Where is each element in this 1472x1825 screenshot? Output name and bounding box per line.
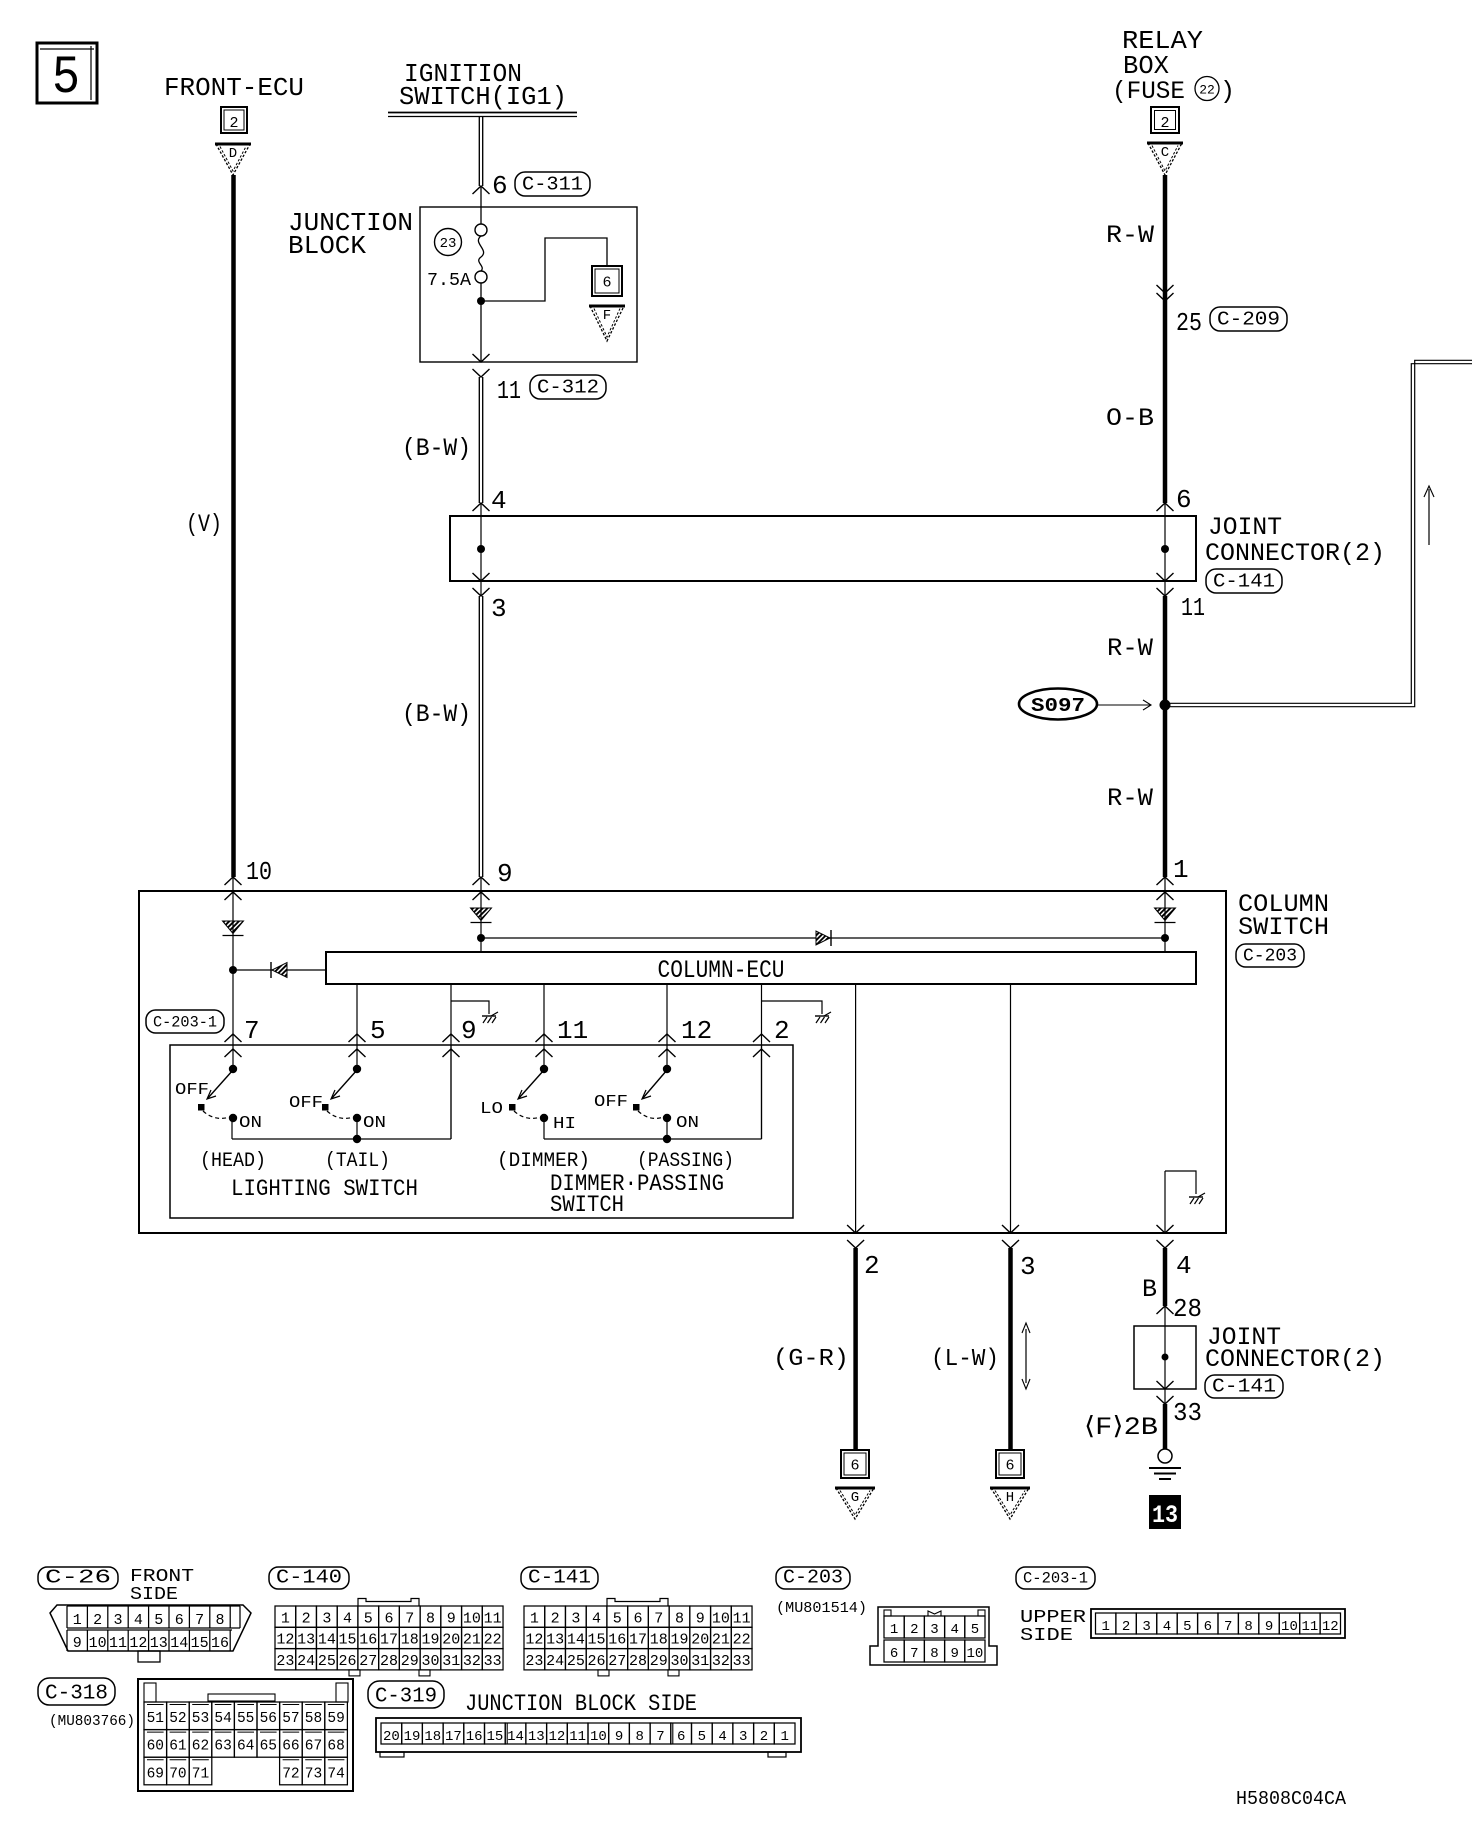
svg-text:21: 21 [463,1632,481,1649]
svg-text:72: 72 [282,1766,299,1782]
svg-text:2: 2 [229,115,238,132]
svg-text:8: 8 [426,1610,435,1627]
svg-text:5: 5 [364,1610,373,1627]
svg-text:C-319: C-319 [375,1686,437,1709]
svg-text:9: 9 [447,1610,456,1627]
svg-text:2: 2 [910,1622,918,1638]
svg-text:20: 20 [383,1729,400,1745]
svg-text:C-318: C-318 [45,1683,108,1706]
svg-text:SWITCH(IG1): SWITCH(IG1) [399,82,567,112]
svg-text:(FUSE: (FUSE [1112,77,1185,106]
svg-text:C-26: C-26 [45,1567,111,1589]
svg-text:11: 11 [484,1610,502,1627]
svg-text:8: 8 [930,1646,938,1662]
svg-text:18: 18 [401,1632,419,1649]
svg-text:3: 3 [1142,1619,1150,1635]
svg-text:CONNECTOR(2): CONNECTOR(2) [1205,1345,1385,1374]
svg-text:6: 6 [385,1610,394,1627]
svg-text:): ) [1220,77,1235,106]
svg-text:(DIMMER): (DIMMER) [497,1150,590,1173]
svg-text:54: 54 [214,1711,231,1727]
svg-text:(V): (V) [186,510,222,539]
svg-text:7.5A: 7.5A [427,271,471,291]
svg-text:S097: S097 [1031,695,1085,717]
svg-text:4: 4 [950,1622,958,1638]
svg-text:23: 23 [276,1653,294,1670]
svg-text:1: 1 [1173,855,1189,885]
svg-text:53: 53 [192,1711,209,1727]
svg-text:4: 4 [1163,1619,1171,1635]
svg-text:16: 16 [211,1635,229,1652]
svg-text:26: 26 [339,1653,357,1670]
svg-text:10: 10 [590,1729,607,1745]
svg-text:C-141: C-141 [1213,571,1275,593]
svg-text:FRONT: FRONT [130,1567,194,1587]
svg-text:14: 14 [567,1632,585,1649]
svg-text:JUNCTION BLOCK SIDE: JUNCTION BLOCK SIDE [465,1691,697,1717]
svg-text:6: 6 [890,1646,898,1662]
svg-text:20: 20 [442,1632,460,1649]
svg-text:2: 2 [302,1610,311,1627]
svg-text:11: 11 [557,1016,588,1046]
svg-text:24: 24 [546,1653,564,1670]
svg-text:C-209: C-209 [1217,309,1280,331]
svg-text:LIGHTING SWITCH: LIGHTING SWITCH [231,1176,418,1202]
svg-text:LO: LO [480,1100,503,1119]
svg-text:17: 17 [380,1632,398,1649]
svg-text:9: 9 [615,1729,623,1745]
svg-text:23: 23 [525,1653,543,1670]
svg-text:25: 25 [1176,308,1202,338]
svg-text:5: 5 [1183,1619,1191,1635]
svg-text:(G-R): (G-R) [773,1346,849,1373]
svg-text:74: 74 [327,1766,344,1782]
svg-text:(L-W): (L-W) [931,1346,999,1373]
svg-text:16: 16 [608,1632,626,1649]
svg-text:C-140: C-140 [276,1567,342,1589]
svg-text:56: 56 [260,1711,277,1727]
svg-text:19: 19 [404,1729,421,1745]
svg-text:12: 12 [276,1632,294,1649]
svg-text:7: 7 [1224,1619,1232,1635]
svg-text:G: G [851,1490,859,1506]
svg-text:60: 60 [147,1739,164,1755]
svg-text:C-141: C-141 [1212,1376,1276,1398]
svg-text:⟨F⟩2B: ⟨F⟩2B [1084,1413,1158,1442]
svg-text:16: 16 [359,1632,377,1649]
svg-text:C: C [1161,145,1169,161]
svg-text:14: 14 [318,1632,336,1649]
svg-text:12: 12 [129,1635,147,1652]
svg-text:29: 29 [650,1653,668,1670]
svg-text:24: 24 [297,1653,315,1670]
svg-text:4: 4 [343,1610,352,1627]
svg-text:63: 63 [214,1739,231,1755]
svg-text:14: 14 [170,1635,188,1652]
svg-text:30: 30 [670,1653,688,1670]
svg-text:55: 55 [237,1711,254,1727]
svg-text:25: 25 [318,1653,336,1670]
svg-text:C-141: C-141 [528,1567,591,1589]
svg-text:OFF: OFF [289,1094,323,1113]
svg-text:25: 25 [567,1653,585,1670]
svg-text:JOINT: JOINT [1208,513,1282,542]
svg-text:(B-W): (B-W) [402,700,471,729]
svg-text:10: 10 [712,1610,730,1627]
svg-text:R-W: R-W [1107,634,1153,663]
svg-text:32: 32 [463,1653,481,1670]
svg-text:19: 19 [670,1632,688,1649]
svg-text:33: 33 [484,1653,502,1670]
svg-text:F: F [603,308,611,324]
svg-text:9: 9 [497,859,513,889]
svg-text:C-311: C-311 [522,174,583,196]
svg-text:4: 4 [592,1610,601,1627]
svg-text:11: 11 [109,1635,127,1652]
svg-text:73: 73 [305,1766,322,1782]
svg-text:10: 10 [246,857,272,887]
svg-text:15: 15 [486,1729,503,1745]
svg-text:9: 9 [1265,1619,1273,1635]
svg-text:OFF: OFF [175,1081,209,1100]
svg-text:1: 1 [890,1622,898,1638]
svg-text:1: 1 [780,1729,788,1745]
svg-text:66: 66 [282,1739,299,1755]
svg-text:5: 5 [613,1610,622,1627]
svg-text:3: 3 [1020,1252,1036,1282]
svg-text:68: 68 [327,1739,344,1755]
svg-text:3: 3 [322,1610,331,1627]
svg-text:1: 1 [73,1612,82,1629]
svg-text:11: 11 [569,1729,586,1745]
svg-text:ON: ON [363,1114,386,1133]
svg-text:2: 2 [760,1729,768,1745]
svg-text:1: 1 [1102,1619,1110,1635]
svg-text:5: 5 [698,1729,706,1745]
svg-text:28: 28 [1173,1294,1202,1324]
svg-text:HI: HI [553,1115,576,1134]
svg-text:32: 32 [712,1653,730,1670]
svg-text:2: 2 [551,1610,560,1627]
svg-text:15: 15 [588,1632,606,1649]
svg-text:12: 12 [525,1632,543,1649]
svg-text:SIDE: SIDE [130,1585,178,1605]
svg-text:UPPER: UPPER [1020,1608,1086,1628]
svg-text:1: 1 [530,1610,539,1627]
svg-text:2: 2 [93,1612,102,1629]
svg-text:19: 19 [421,1632,439,1649]
svg-text:2: 2 [1122,1619,1130,1635]
svg-text:12: 12 [1322,1619,1339,1635]
svg-text:10: 10 [966,1646,983,1662]
svg-text:6: 6 [1204,1619,1212,1635]
svg-text:2: 2 [1160,115,1169,132]
svg-text:71: 71 [192,1766,209,1782]
svg-text:6: 6 [634,1610,643,1627]
svg-text:5: 5 [52,48,80,109]
svg-text:14: 14 [507,1729,524,1745]
svg-text:4: 4 [1176,1251,1192,1281]
svg-text:4: 4 [491,486,507,516]
svg-text:64: 64 [237,1739,254,1755]
svg-text:15: 15 [339,1632,357,1649]
svg-text:13: 13 [528,1729,545,1745]
svg-text:SWITCH: SWITCH [550,1192,624,1218]
svg-text:3: 3 [113,1612,122,1629]
svg-text:D: D [229,146,237,162]
svg-text:62: 62 [192,1739,209,1755]
svg-text:52: 52 [169,1711,186,1727]
svg-text:28: 28 [380,1653,398,1670]
svg-text:(B-W): (B-W) [402,434,471,463]
svg-text:R-W: R-W [1106,221,1154,250]
svg-text:SWITCH: SWITCH [1238,913,1329,942]
svg-text:7: 7 [195,1612,204,1629]
svg-text:33: 33 [733,1653,751,1670]
svg-text:FRONT-ECU: FRONT-ECU [164,73,304,103]
svg-text:(MU801514): (MU801514) [776,1600,867,1617]
svg-text:(HEAD): (HEAD) [200,1150,266,1173]
svg-text:6: 6 [602,275,611,292]
svg-text:65: 65 [260,1739,277,1755]
svg-text:3: 3 [491,594,507,624]
svg-text:6: 6 [1176,485,1192,515]
svg-text:3: 3 [930,1622,938,1638]
svg-text:C-203: C-203 [783,1567,843,1589]
svg-text:4: 4 [718,1729,726,1745]
svg-text:57: 57 [282,1711,299,1727]
svg-text:27: 27 [608,1653,626,1670]
svg-text:3: 3 [739,1729,747,1745]
svg-text:7: 7 [656,1729,664,1745]
svg-text:11: 11 [497,376,521,406]
svg-text:11: 11 [1301,1619,1318,1635]
svg-text:10: 10 [1281,1619,1298,1635]
svg-text:6: 6 [850,1458,859,1475]
svg-text:2: 2 [864,1251,880,1281]
svg-text:10: 10 [89,1635,107,1652]
svg-text:13: 13 [546,1632,564,1649]
svg-text:C-312: C-312 [537,377,599,399]
svg-text:(PASSING): (PASSING) [637,1150,734,1173]
svg-text:61: 61 [169,1739,186,1755]
svg-text:5: 5 [370,1016,386,1046]
svg-text:15: 15 [191,1635,209,1652]
svg-text:31: 31 [691,1653,709,1670]
svg-text:13: 13 [297,1632,315,1649]
svg-text:22: 22 [1199,83,1215,98]
svg-text:9: 9 [461,1016,477,1046]
svg-text:O-B: O-B [1106,404,1154,433]
svg-text:SIDE: SIDE [1020,1626,1073,1646]
svg-text:28: 28 [629,1653,647,1670]
svg-text:2: 2 [774,1016,790,1046]
svg-text:12: 12 [681,1016,712,1046]
svg-text:18: 18 [424,1729,441,1745]
svg-text:27: 27 [359,1653,377,1670]
svg-text:3: 3 [571,1610,580,1627]
svg-text:6: 6 [175,1612,184,1629]
svg-text:13: 13 [1152,1501,1178,1530]
svg-text:C-203: C-203 [1243,947,1297,967]
svg-text:17: 17 [445,1729,462,1745]
svg-text:8: 8 [675,1610,684,1627]
svg-text:6: 6 [492,171,508,201]
svg-text:26: 26 [588,1653,606,1670]
svg-text:12: 12 [549,1729,566,1745]
svg-text:31: 31 [442,1653,460,1670]
svg-text:11: 11 [733,1610,751,1627]
svg-text:9: 9 [73,1635,82,1652]
svg-text:7: 7 [244,1016,260,1046]
svg-text:59: 59 [327,1711,344,1727]
svg-text:1: 1 [281,1610,290,1627]
svg-text:C-203-1: C-203-1 [153,1014,217,1032]
svg-text:BLOCK: BLOCK [288,231,366,261]
svg-text:ON: ON [239,1114,262,1133]
svg-text:ON: ON [676,1114,699,1133]
svg-text:COLUMN-ECU: COLUMN-ECU [658,956,785,985]
svg-text:CONNECTOR(2): CONNECTOR(2) [1205,539,1385,568]
svg-text:13: 13 [150,1635,168,1652]
svg-text:21: 21 [712,1632,730,1649]
svg-text:(TAIL): (TAIL) [325,1150,390,1173]
svg-text:70: 70 [169,1766,186,1782]
svg-text:33: 33 [1173,1398,1202,1428]
svg-text:R-W: R-W [1107,784,1153,813]
svg-text:(MU803766): (MU803766) [49,1713,135,1730]
svg-text:8: 8 [1244,1619,1252,1635]
svg-text:51: 51 [147,1711,164,1727]
svg-text:8: 8 [215,1612,224,1629]
svg-text:B: B [1142,1275,1157,1304]
svg-text:C-203-1: C-203-1 [1023,1570,1088,1588]
svg-text:16: 16 [466,1729,483,1745]
svg-text:9: 9 [950,1646,958,1662]
svg-text:6: 6 [1005,1458,1014,1475]
svg-text:67: 67 [305,1739,322,1755]
svg-text:23: 23 [440,236,457,252]
svg-text:7: 7 [405,1610,414,1627]
svg-text:8: 8 [636,1729,644,1745]
svg-text:10: 10 [463,1610,481,1627]
svg-text:9: 9 [696,1610,705,1627]
svg-text:58: 58 [305,1711,322,1727]
svg-text:69: 69 [147,1766,164,1782]
svg-text:22: 22 [484,1632,502,1649]
svg-text:5: 5 [971,1622,979,1638]
svg-text:18: 18 [650,1632,668,1649]
svg-text:29: 29 [401,1653,419,1670]
svg-text:H: H [1006,1490,1014,1506]
svg-text:30: 30 [421,1653,439,1670]
svg-text:7: 7 [910,1646,918,1662]
svg-text:4: 4 [134,1612,143,1629]
svg-text:5: 5 [154,1612,163,1629]
svg-text:17: 17 [629,1632,647,1649]
svg-text:20: 20 [691,1632,709,1649]
svg-text:22: 22 [733,1632,751,1649]
svg-text:11: 11 [1181,593,1205,623]
svg-text:OFF: OFF [594,1093,628,1112]
svg-text:7: 7 [654,1610,663,1627]
svg-text:6: 6 [677,1729,685,1745]
svg-text:H5808C04CA: H5808C04CA [1236,1788,1347,1810]
